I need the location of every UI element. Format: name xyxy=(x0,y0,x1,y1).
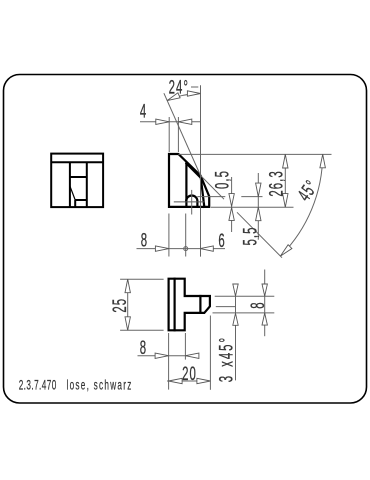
svg-text:3: 3 xyxy=(217,375,238,382)
svg-text:24°: 24° xyxy=(169,78,189,99)
svg-text:26,3: 26,3 xyxy=(267,170,288,197)
svg-text:6: 6 xyxy=(218,231,225,252)
svg-text:5,5: 5,5 xyxy=(241,226,262,245)
svg-text:45°: 45° xyxy=(294,177,323,206)
svg-text:20: 20 xyxy=(182,364,197,385)
svg-text:8: 8 xyxy=(248,301,269,308)
svg-text:0,5: 0,5 xyxy=(213,170,234,189)
svg-text:8: 8 xyxy=(141,231,148,252)
svg-text:x45°: x45° xyxy=(217,336,238,367)
svg-text:2.3.7.470: 2.3.7.470 xyxy=(19,379,57,394)
svg-text:25: 25 xyxy=(110,298,131,313)
svg-text:4: 4 xyxy=(140,102,147,123)
svg-text:lose, schwarz: lose, schwarz xyxy=(67,379,133,394)
svg-text:8: 8 xyxy=(140,338,147,359)
